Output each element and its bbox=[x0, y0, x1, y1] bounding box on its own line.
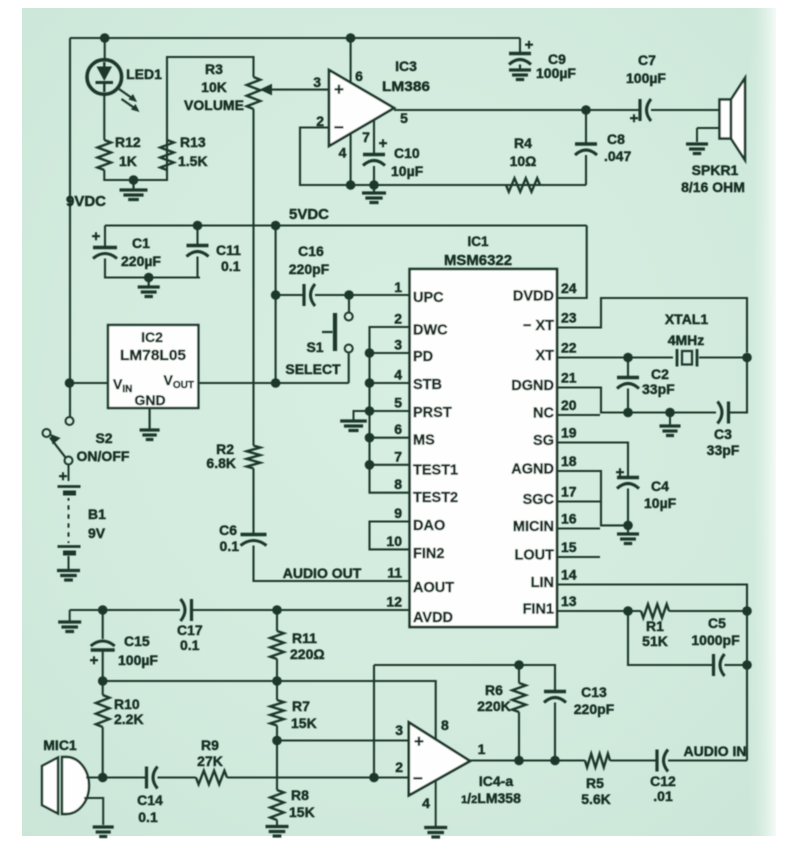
svg-text:C4: C4 bbox=[651, 478, 669, 494]
svg-text:DAO: DAO bbox=[413, 518, 445, 534]
svg-text:C17: C17 bbox=[177, 622, 203, 638]
svg-text:PRST: PRST bbox=[413, 405, 452, 421]
svg-text:+: + bbox=[525, 37, 534, 54]
svg-text:19: 19 bbox=[561, 425, 577, 441]
svg-text:+: + bbox=[414, 732, 424, 751]
svg-text:LM386: LM386 bbox=[382, 78, 430, 94]
svg-text:MS: MS bbox=[413, 433, 435, 449]
svg-text:− XT: − XT bbox=[523, 318, 554, 334]
svg-text:R7: R7 bbox=[292, 698, 310, 714]
svg-text:C3: C3 bbox=[714, 426, 732, 442]
svg-text:LIN: LIN bbox=[531, 575, 554, 591]
svg-text:+: + bbox=[334, 80, 344, 99]
svg-text:R1: R1 bbox=[646, 618, 664, 634]
svg-text:C10: C10 bbox=[394, 145, 420, 161]
svg-text:R10: R10 bbox=[114, 696, 140, 712]
svg-text:S2: S2 bbox=[95, 430, 112, 446]
svg-text:0.1: 0.1 bbox=[221, 258, 241, 274]
svg-text:10: 10 bbox=[386, 533, 402, 549]
svg-text:5: 5 bbox=[394, 395, 402, 411]
svg-text:B1: B1 bbox=[88, 506, 106, 522]
svg-text:4: 4 bbox=[394, 367, 402, 383]
svg-text:GND: GND bbox=[134, 392, 165, 408]
svg-text:AUDIO OUT: AUDIO OUT bbox=[283, 565, 362, 581]
svg-text:R12: R12 bbox=[115, 134, 141, 150]
svg-text:23: 23 bbox=[561, 310, 577, 326]
svg-text:16: 16 bbox=[561, 511, 577, 527]
svg-text:5.6K: 5.6K bbox=[581, 791, 611, 807]
svg-text:1K: 1K bbox=[119, 153, 137, 169]
svg-text:22: 22 bbox=[561, 340, 577, 356]
svg-text:SGC: SGC bbox=[523, 492, 555, 508]
svg-text:IC2: IC2 bbox=[141, 329, 163, 345]
svg-text:0.1: 0.1 bbox=[138, 809, 158, 825]
svg-text:10µF: 10µF bbox=[391, 163, 424, 179]
svg-text:C1: C1 bbox=[132, 235, 150, 251]
svg-text:C7: C7 bbox=[638, 52, 656, 68]
svg-text:2: 2 bbox=[316, 113, 324, 129]
svg-text:9: 9 bbox=[394, 505, 402, 521]
svg-text:+: + bbox=[379, 135, 388, 152]
svg-text:220K: 220K bbox=[477, 698, 510, 714]
svg-text:+: + bbox=[59, 468, 68, 485]
svg-text:R4: R4 bbox=[514, 135, 532, 151]
svg-text:1000pF: 1000pF bbox=[691, 632, 740, 648]
svg-text:20: 20 bbox=[561, 397, 577, 413]
svg-text:4MHz: 4MHz bbox=[668, 332, 705, 348]
svg-text:AGND: AGND bbox=[511, 462, 554, 478]
svg-text:C14: C14 bbox=[137, 792, 163, 808]
svg-text:21: 21 bbox=[561, 370, 577, 386]
svg-text:XTAL1: XTAL1 bbox=[665, 311, 709, 327]
svg-text:LED1: LED1 bbox=[126, 66, 162, 82]
svg-text:18: 18 bbox=[561, 453, 577, 469]
svg-text:DWC: DWC bbox=[413, 323, 448, 339]
svg-text:8: 8 bbox=[394, 476, 402, 492]
svg-text:27K: 27K bbox=[197, 753, 223, 769]
svg-text:+: + bbox=[90, 652, 99, 669]
svg-text:220pF: 220pF bbox=[289, 261, 330, 277]
svg-text:TEST2: TEST2 bbox=[413, 490, 458, 506]
svg-text:1: 1 bbox=[478, 741, 486, 757]
svg-text:17: 17 bbox=[561, 484, 577, 500]
svg-text:2: 2 bbox=[395, 759, 403, 775]
svg-text:−: − bbox=[413, 769, 423, 788]
svg-text:PD: PD bbox=[413, 349, 433, 365]
svg-text:C15: C15 bbox=[124, 633, 150, 649]
svg-text:FIN1: FIN1 bbox=[523, 602, 554, 618]
svg-text:220µF: 220µF bbox=[121, 253, 161, 269]
svg-text:100µF: 100µF bbox=[626, 70, 666, 86]
svg-text:10Ω: 10Ω bbox=[510, 153, 537, 169]
svg-text:AOUT: AOUT bbox=[413, 580, 454, 596]
svg-text:2.2K: 2.2K bbox=[114, 711, 144, 727]
svg-text:51K: 51K bbox=[642, 633, 668, 649]
svg-text:C8: C8 bbox=[607, 131, 625, 147]
svg-text:R9: R9 bbox=[201, 737, 219, 753]
svg-text:MSM6322: MSM6322 bbox=[444, 252, 512, 269]
svg-text:LOUT: LOUT bbox=[515, 548, 555, 564]
svg-text:3: 3 bbox=[394, 337, 402, 353]
svg-text:IC3: IC3 bbox=[395, 58, 417, 74]
svg-text:R5: R5 bbox=[586, 775, 604, 791]
svg-text:−: − bbox=[334, 118, 344, 137]
svg-text:3: 3 bbox=[395, 722, 403, 738]
svg-text:6.8K: 6.8K bbox=[206, 455, 236, 471]
svg-text:4: 4 bbox=[422, 795, 430, 811]
svg-text:UPC: UPC bbox=[413, 290, 444, 306]
svg-text:R8: R8 bbox=[291, 787, 309, 803]
svg-text:S1: S1 bbox=[306, 339, 323, 355]
svg-text:+: + bbox=[630, 110, 639, 127]
svg-text:0.1: 0.1 bbox=[220, 538, 240, 554]
svg-text:C6: C6 bbox=[219, 522, 237, 538]
svg-text:33pF: 33pF bbox=[707, 442, 740, 458]
svg-text:ON/OFF: ON/OFF bbox=[77, 448, 130, 464]
svg-text:TEST1: TEST1 bbox=[413, 462, 458, 478]
svg-text:5: 5 bbox=[400, 110, 408, 126]
svg-text:VOLUME: VOLUME bbox=[184, 97, 244, 113]
svg-text:220Ω: 220Ω bbox=[290, 646, 325, 662]
svg-text:12: 12 bbox=[386, 594, 402, 610]
svg-text:SELECT: SELECT bbox=[285, 361, 341, 377]
svg-text:8/16 OHM: 8/16 OHM bbox=[681, 179, 745, 195]
svg-text:+: + bbox=[92, 228, 101, 245]
svg-text:1/2LM358: 1/2LM358 bbox=[461, 790, 521, 806]
svg-text:15K: 15K bbox=[289, 804, 315, 820]
svg-text:33pF: 33pF bbox=[642, 381, 675, 397]
svg-text:R3: R3 bbox=[205, 61, 223, 77]
svg-text:R11: R11 bbox=[292, 630, 317, 646]
svg-text:1: 1 bbox=[394, 279, 402, 295]
svg-text:10µF: 10µF bbox=[644, 495, 677, 511]
svg-text:DGND: DGND bbox=[511, 378, 554, 394]
svg-text:100µF: 100µF bbox=[536, 65, 576, 81]
svg-text:DVDD: DVDD bbox=[513, 289, 554, 305]
svg-text:C5: C5 bbox=[708, 615, 726, 631]
svg-text:10K: 10K bbox=[201, 79, 227, 95]
svg-text:SPKR1: SPKR1 bbox=[692, 162, 739, 178]
svg-text:9VDC: 9VDC bbox=[66, 193, 106, 210]
svg-text:8: 8 bbox=[441, 717, 449, 733]
svg-text:0.1: 0.1 bbox=[180, 637, 200, 653]
svg-text:SG: SG bbox=[533, 433, 554, 449]
svg-text:13: 13 bbox=[561, 593, 577, 609]
svg-text:STB: STB bbox=[413, 377, 442, 393]
svg-text:11: 11 bbox=[387, 565, 402, 581]
svg-text:+: + bbox=[616, 464, 625, 481]
svg-text:C2: C2 bbox=[651, 366, 669, 382]
svg-text:AUDIO IN: AUDIO IN bbox=[684, 743, 747, 759]
svg-text:C16: C16 bbox=[298, 243, 324, 259]
svg-text:7: 7 bbox=[394, 448, 402, 464]
svg-text:15K: 15K bbox=[291, 715, 317, 731]
svg-text:6: 6 bbox=[394, 421, 402, 437]
svg-text:15: 15 bbox=[561, 539, 577, 555]
svg-text:24: 24 bbox=[561, 280, 577, 296]
svg-text:9V: 9V bbox=[88, 525, 106, 541]
svg-text:AVDD: AVDD bbox=[413, 610, 453, 626]
svg-text:7: 7 bbox=[362, 129, 370, 145]
svg-text:LM78L05: LM78L05 bbox=[120, 347, 186, 364]
svg-text:1.5K: 1.5K bbox=[178, 153, 208, 169]
svg-text:.01: .01 bbox=[653, 788, 673, 804]
svg-text:220pF: 220pF bbox=[574, 701, 615, 717]
svg-text:R13: R13 bbox=[180, 134, 206, 150]
svg-text:100µF: 100µF bbox=[118, 652, 158, 668]
svg-text:6: 6 bbox=[355, 68, 363, 84]
svg-text:IC4-a: IC4-a bbox=[479, 773, 513, 789]
svg-text:NC: NC bbox=[533, 406, 554, 422]
svg-text:XT: XT bbox=[535, 348, 554, 364]
svg-text:IC1: IC1 bbox=[467, 234, 489, 249]
svg-text:5VDC: 5VDC bbox=[289, 206, 329, 223]
svg-text:14: 14 bbox=[561, 567, 577, 583]
svg-text:C13: C13 bbox=[581, 684, 607, 700]
svg-text:FIN2: FIN2 bbox=[413, 546, 444, 562]
svg-text:MICIN: MICIN bbox=[513, 519, 554, 535]
svg-text:4: 4 bbox=[339, 145, 347, 161]
svg-text:C12: C12 bbox=[650, 773, 676, 789]
svg-text:MIC1: MIC1 bbox=[43, 737, 77, 753]
svg-text:.047: .047 bbox=[604, 148, 631, 164]
svg-text:2: 2 bbox=[394, 311, 402, 327]
svg-text:3: 3 bbox=[313, 74, 321, 90]
svg-text:R6: R6 bbox=[485, 682, 503, 698]
svg-text:C11: C11 bbox=[216, 242, 241, 258]
